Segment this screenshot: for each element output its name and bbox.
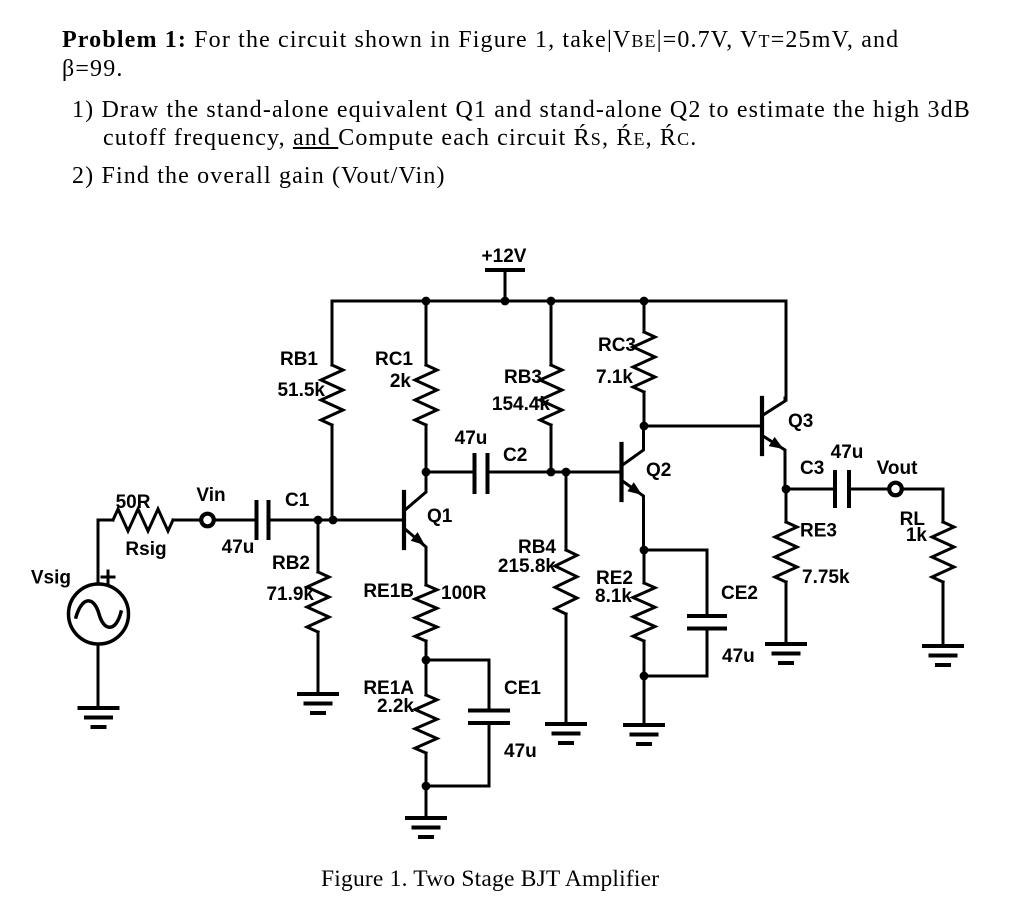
- svg-text:Q3: Q3: [788, 411, 813, 432]
- ground RE1A: [407, 818, 445, 837]
- svg-text:Rsig: Rsig: [125, 539, 166, 560]
- svg-text:7.75k: 7.75k: [802, 567, 850, 588]
- resistor RE2 8.1k: [595, 550, 655, 676]
- resistor RL 1k: [900, 489, 954, 646]
- resistor RC1 2k: [375, 301, 437, 472]
- svg-text:50R: 50R: [116, 492, 151, 513]
- svg-text:C3: C3: [800, 458, 824, 479]
- wire +12V supply rail: [333, 300, 786, 303]
- svg-text:RE3: RE3: [800, 521, 837, 542]
- node Vout terminal: [877, 458, 918, 495]
- wire rail right end down to Q3 collector: [785, 301, 788, 400]
- wire Q3 emitter to C3: [786, 488, 833, 491]
- ground Vsig: [80, 708, 118, 727]
- node Vin terminal: [196, 485, 225, 526]
- transistor Q3: [762, 398, 785, 489]
- svg-text:C1: C1: [285, 490, 310, 511]
- wire 50R to Vin: [173, 519, 201, 522]
- svg-text:47u: 47u: [722, 646, 755, 667]
- capacitor CE1 47u: [426, 660, 541, 786]
- node RB3 bottom: [547, 468, 556, 477]
- node Q1 collector / C2: [422, 468, 431, 477]
- resistor RB3 154.4k: [492, 301, 562, 472]
- svg-text:51.5k: 51.5k: [277, 380, 325, 401]
- transistor Q2: [622, 426, 644, 550]
- ground RL: [924, 646, 962, 665]
- capacitor C2 47u: [455, 428, 528, 492]
- node Q3 emitter / C3: [782, 485, 791, 494]
- svg-text:RB1: RB1: [280, 349, 318, 370]
- svg-text:47u: 47u: [504, 741, 537, 762]
- svg-text:RB4: RB4: [518, 537, 556, 558]
- resistor RB1 51.5k: [277, 301, 343, 520]
- node RE1A bottom: [422, 782, 431, 791]
- svg-text:Q1: Q1: [427, 506, 453, 527]
- ground RE2: [625, 725, 663, 744]
- svg-text:RB3: RB3: [504, 367, 542, 388]
- node rail-RC3: [640, 297, 649, 306]
- node RB4 top: [562, 468, 571, 477]
- svg-text:47u: 47u: [222, 537, 255, 558]
- capacitor C3 47u: [800, 442, 863, 506]
- resistor RE3 7.75k: [775, 489, 850, 644]
- node Q2 collector: [640, 422, 649, 431]
- svg-text:RB2: RB2: [272, 553, 310, 574]
- resistor RB2 71.9k: [266, 520, 329, 694]
- wire Vout to RL: [902, 488, 943, 491]
- resistor RE1B 100R: [363, 581, 486, 660]
- node rail-RC1: [422, 297, 431, 306]
- node rail-supply: [501, 297, 510, 306]
- svg-text:Vin: Vin: [196, 485, 225, 506]
- svg-text:47u: 47u: [831, 442, 864, 463]
- ground RE3: [767, 644, 805, 663]
- transistor Q1: [404, 472, 426, 585]
- svg-text:Q2: Q2: [646, 460, 671, 481]
- svg-text:RC1: RC1: [375, 349, 413, 370]
- resistor RE1A 2.2k: [363, 660, 437, 786]
- wire Q2 collector to Q3 base: [644, 425, 761, 428]
- wire input to 50R: [98, 519, 113, 522]
- svg-text:7.1k: 7.1k: [596, 367, 633, 388]
- svg-text:2.2k: 2.2k: [377, 696, 414, 717]
- svg-text:71.9k: 71.9k: [266, 584, 314, 605]
- svg-text:47u: 47u: [455, 428, 488, 449]
- wire RE1A bottom to ground: [425, 786, 428, 818]
- capacitor CE2 47u: [644, 550, 758, 676]
- node RB2 top: [314, 516, 323, 525]
- ground RB4: [547, 724, 585, 743]
- svg-text:Vsig: Vsig: [31, 568, 71, 589]
- wire C2 left: [426, 471, 472, 474]
- wire Vin to C1: [214, 519, 254, 522]
- resistor RC3 7.1k: [596, 301, 655, 426]
- svg-text:RC3: RC3: [598, 335, 636, 356]
- wire C3 to Vout: [851, 488, 889, 491]
- source Vsig: [31, 520, 129, 708]
- node RB1 bottom: [329, 516, 338, 525]
- resistor RB4 215.8k: [498, 472, 577, 724]
- node RE2 bottom: [640, 672, 649, 681]
- svg-text:CE2: CE2: [721, 583, 758, 604]
- svg-text:C2: C2: [503, 445, 527, 466]
- svg-text:CE1: CE1: [504, 678, 541, 699]
- svg-text:154.4k: 154.4k: [492, 394, 551, 415]
- resistor Rsig 50R: [113, 492, 173, 560]
- wire C1 to Q1 base: [270, 519, 402, 522]
- node RE1B bottom: [422, 656, 431, 665]
- svg-text:8.1k: 8.1k: [595, 586, 632, 607]
- svg-text:1k: 1k: [906, 525, 928, 546]
- svg-text:2k: 2k: [390, 371, 412, 392]
- svg-text:+12V: +12V: [482, 246, 527, 267]
- wire RE2 bottom to ground: [643, 676, 646, 725]
- power +12V symbol: [482, 246, 527, 301]
- node rail-RB3: [547, 297, 556, 306]
- svg-text:RE1B: RE1B: [363, 581, 414, 602]
- wire C2 to Q2 base: [490, 471, 620, 474]
- ground RB2: [299, 694, 337, 713]
- svg-text:100R: 100R: [441, 583, 487, 604]
- svg-text:Vout: Vout: [877, 458, 918, 479]
- node Q2 emitter: [640, 546, 649, 555]
- capacitor C1 47u: [222, 490, 310, 558]
- svg-text:215.8k: 215.8k: [498, 556, 557, 577]
